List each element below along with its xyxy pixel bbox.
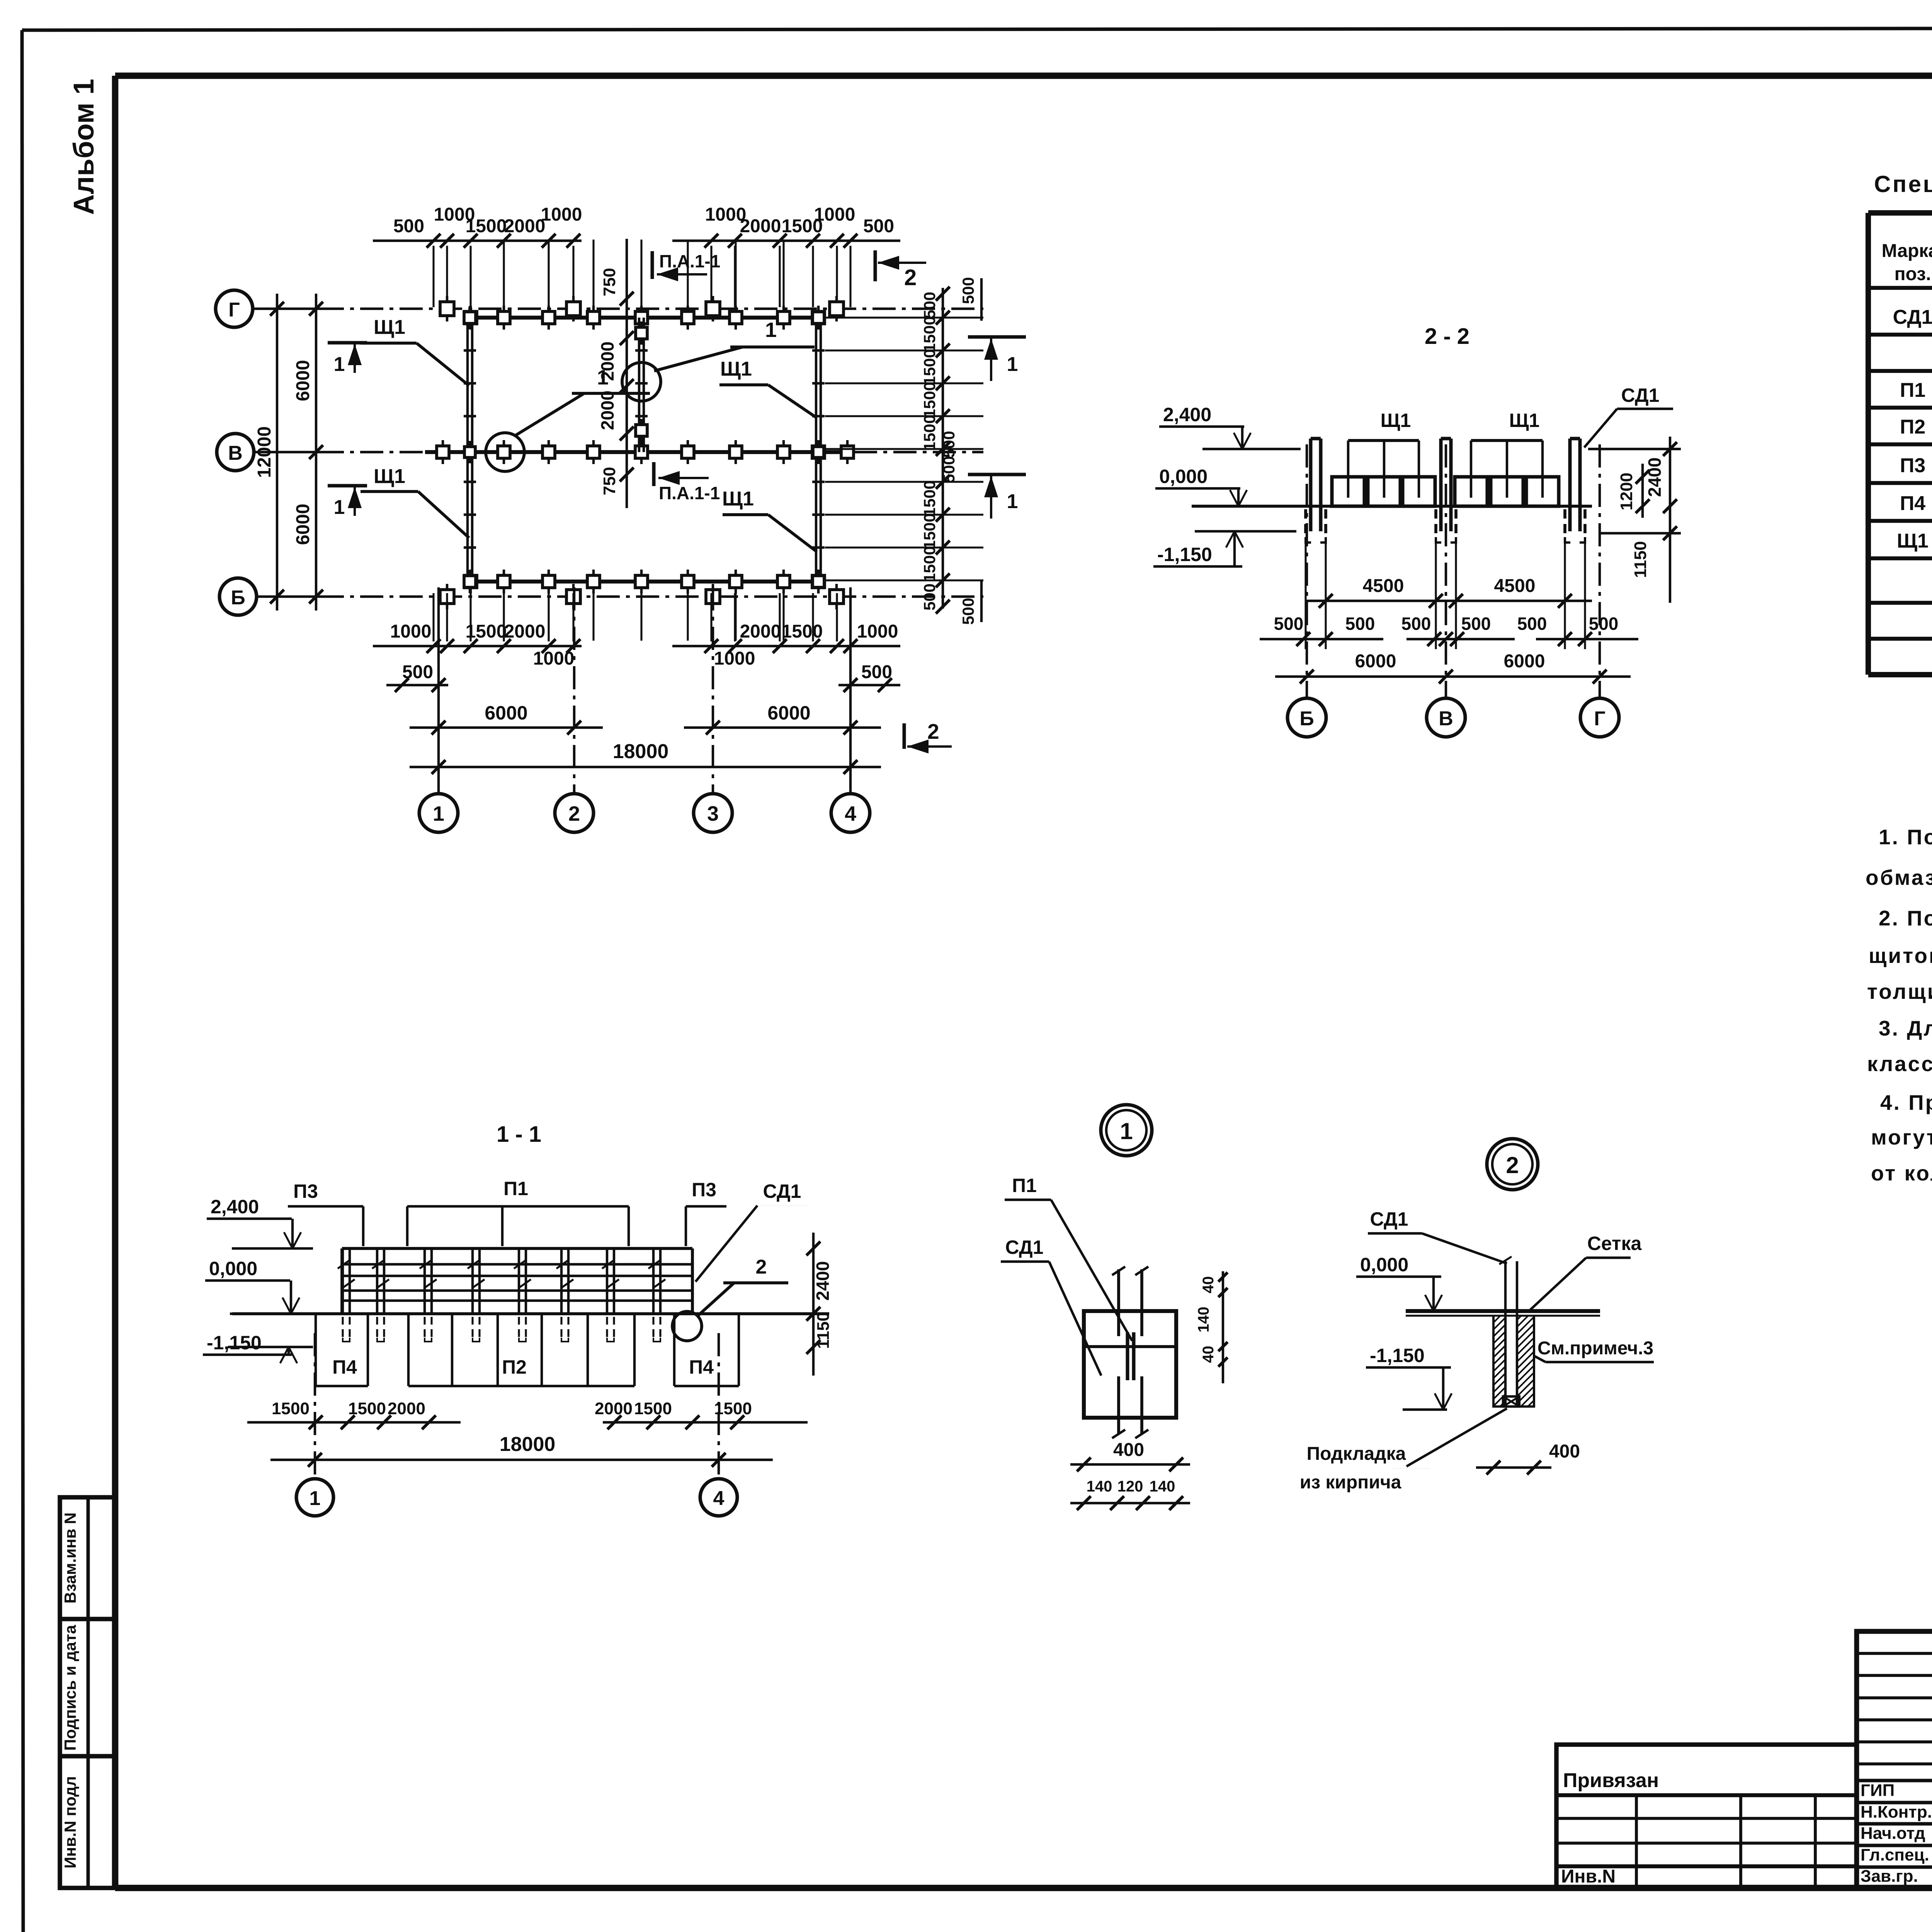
section 2-2 СД1 label: [1584, 384, 1673, 447]
svg-text:6000: 6000: [293, 360, 313, 401]
svg-text:Привязан: Привязан: [1563, 1769, 1659, 1792]
svg-text:500: 500: [1461, 614, 1491, 634]
svg-text:Зав.гр.: Зав.гр.: [1861, 1867, 1918, 1886]
plan detail circle 1 on axis В: [486, 366, 650, 471]
plan left dim line 12000: [254, 294, 284, 611]
plan witness verticals: [504, 240, 784, 641]
svg-text:толщиной 130 мкм.: толщиной 130 мкм.: [1867, 980, 1932, 1003]
plan label Щ1 top-right: [719, 358, 816, 417]
svg-text:Инв.N: Инв.N: [1561, 1866, 1616, 1887]
svg-text:1: 1: [1120, 1118, 1133, 1144]
svg-text:Щ1: Щ1: [374, 316, 405, 338]
svg-text:СД1: СД1: [763, 1180, 801, 1202]
svg-text:П3: П3: [1900, 454, 1925, 477]
plan middle wall on axis В: [425, 440, 854, 464]
svg-text:П3: П3: [293, 1180, 318, 1202]
svg-text:1150: 1150: [1631, 541, 1650, 578]
svg-text:500: 500: [1517, 614, 1547, 634]
svg-text:3. Для замоноличивания стоек: 3. Для замоноличивания стоек в скважине …: [1879, 1016, 1932, 1040]
svg-text:12000: 12000: [254, 426, 275, 478]
svg-text:Щ1: Щ1: [1381, 410, 1411, 431]
detail 2 labels: [1300, 1208, 1654, 1493]
svg-text:2,400: 2,400: [211, 1196, 259, 1218]
plan 500 dims: [386, 662, 900, 692]
svg-text:18000: 18000: [500, 1433, 556, 1456]
svg-text:0,000: 0,000: [1159, 466, 1207, 487]
svg-text:СД1: СД1: [1621, 384, 1660, 406]
svg-text:класса В7.5: класса В7.5: [1867, 1052, 1932, 1076]
svg-text:щитов окрасить перхлорвинило: щитов окрасить перхлорвиниловой эмалью Х…: [1869, 944, 1932, 968]
svg-text:4500: 4500: [1363, 576, 1404, 596]
svg-text:140: 140: [1195, 1307, 1212, 1333]
svg-text:750: 750: [600, 268, 619, 296]
svg-text:1500: 1500: [272, 1399, 310, 1418]
detail 1 post section: [1084, 1267, 1176, 1438]
svg-text:500: 500: [959, 598, 977, 625]
svg-text:500: 500: [940, 431, 958, 458]
plan section marks 1 left: [328, 343, 367, 519]
svg-text:1000: 1000: [814, 204, 855, 225]
svg-text:Подпись и дата: Подпись и дата: [61, 1625, 79, 1751]
svg-text:1000: 1000: [541, 204, 582, 225]
svg-text:1000: 1000: [533, 648, 575, 669]
svg-text:6000: 6000: [1504, 651, 1545, 672]
svg-text:поз.: поз.: [1895, 264, 1931, 284]
svg-text:СД1: СД1: [1893, 306, 1932, 328]
svg-text:1: 1: [433, 802, 444, 825]
svg-text:Гл.спец.: Гл.спец.: [1861, 1845, 1929, 1864]
svg-text:Щ1: Щ1: [720, 358, 752, 380]
svg-text:от количества и видов удоб: от количества и видов удобрений.: [1871, 1161, 1932, 1185]
svg-text:1150: 1150: [814, 1312, 833, 1349]
svg-text:Н.Контр.: Н.Контр.: [1861, 1803, 1932, 1821]
svg-text:500: 500: [959, 277, 977, 304]
svg-text:4. При привязке к конкретн: 4. При привязке к конкретным условиям пе…: [1880, 1090, 1932, 1114]
section 1-1 title: [497, 1122, 541, 1147]
section 1-1 buried panels П4 П2 П4: [316, 1314, 739, 1386]
section 1-1 bottom dim chain: [247, 1399, 808, 1429]
svg-text:В: В: [228, 442, 243, 464]
svg-text:1: 1: [765, 318, 777, 342]
plan section marks 1 right: [968, 337, 1026, 519]
plan section mark П.А.1-1 top: [652, 251, 720, 281]
plan grid circle Г: [216, 290, 253, 327]
svg-text:Сетка: Сетка: [1587, 1233, 1642, 1254]
svg-text:2000: 2000: [597, 391, 617, 430]
svg-text:Щ1: Щ1: [722, 488, 754, 510]
svg-text:40: 40: [1200, 1346, 1217, 1363]
svg-text:3: 3: [707, 802, 719, 825]
detail 2 bubble: [1487, 1139, 1538, 1190]
svg-text:1000: 1000: [714, 648, 755, 669]
plan label Щ1 top-left: [361, 316, 469, 386]
svg-text:0,000: 0,000: [1360, 1254, 1408, 1276]
svg-text:1500: 1500: [634, 1399, 672, 1418]
svg-text:500: 500: [861, 662, 892, 682]
svg-text:П4: П4: [689, 1356, 714, 1378]
specification table rows: [1893, 306, 1932, 670]
plan top dim chain: [373, 204, 900, 307]
svg-text:2000: 2000: [740, 216, 781, 236]
section 1-1 detail 2 leader: [672, 1256, 788, 1341]
plan middle partition: [635, 318, 648, 452]
svg-text:1200: 1200: [1617, 473, 1636, 510]
svg-text:могут быть выполнены передв: могут быть выполнены передвижными в зави…: [1871, 1125, 1932, 1149]
svg-text:2: 2: [1506, 1152, 1519, 1178]
svg-text:400: 400: [1549, 1441, 1580, 1462]
svg-text:Г: Г: [1594, 707, 1605, 730]
svg-text:СД1: СД1: [1005, 1236, 1044, 1258]
svg-text:0,000: 0,000: [209, 1258, 257, 1279]
svg-text:2000: 2000: [595, 1399, 633, 1418]
plan section mark 2 bottom: [904, 719, 952, 753]
section 2-2 posts СД1: [1306, 439, 1585, 543]
svg-text:Нач.отд: Нач.отд: [1861, 1824, 1925, 1843]
plan left partition Щ1: [464, 306, 476, 593]
svg-text:4: 4: [713, 1487, 724, 1510]
plan section mark 2 top: [875, 250, 926, 290]
svg-text:2400: 2400: [1645, 457, 1665, 497]
svg-text:См.примеч.3: См.примеч.3: [1537, 1338, 1653, 1359]
section 2-2 axis circles: [1287, 444, 1619, 737]
plan label Щ1 bottom-left: [361, 465, 469, 538]
plan bottom wall: [464, 570, 825, 594]
detail 1 labels: [1001, 1175, 1132, 1376]
svg-text:1. Поверхности стоек, заделанн: 1. Поверхности стоек, заделанные в грунт…: [1879, 825, 1932, 849]
svg-text:400: 400: [1113, 1440, 1144, 1460]
plan 6000 dims: [410, 702, 881, 735]
svg-text:Щ1: Щ1: [1897, 530, 1929, 552]
section 1-1 ground line: [232, 1312, 829, 1315]
section 1-1 dim 18000: [270, 1433, 773, 1467]
svg-text:Б: Б: [231, 587, 245, 609]
detail 1 bottom dims: [1070, 1440, 1190, 1510]
section 1-1 П1 label: [407, 1178, 629, 1246]
section 2-2 Щ1 labels: [1348, 410, 1543, 440]
svg-text:1500: 1500: [920, 480, 939, 516]
svg-text:Инв.N подл: Инв.N подл: [61, 1776, 79, 1869]
svg-text:Взам.инв N: Взам.инв N: [61, 1512, 79, 1604]
section 1-1 СД1 label: [696, 1180, 808, 1282]
svg-text:500: 500: [940, 456, 958, 483]
svg-text:из кирпича: из кирпича: [1300, 1472, 1401, 1493]
svg-text:500: 500: [393, 216, 424, 236]
detail 1 right dims 40/140/40: [1195, 1271, 1228, 1383]
svg-text:1 - 1: 1 - 1: [497, 1122, 541, 1147]
plan detail circle 1 on middle partition: [622, 318, 815, 401]
svg-text:-1,150: -1,150: [1370, 1345, 1425, 1366]
svg-text:1: 1: [310, 1487, 321, 1510]
specification table title: [1874, 171, 1932, 197]
svg-text:500: 500: [1401, 614, 1431, 634]
plan grid line Б: [257, 595, 983, 598]
section 2-2 dim 500 chain: [1260, 614, 1638, 646]
specification table grid: [1868, 213, 1932, 675]
svg-text:1500: 1500: [920, 316, 939, 352]
section 1-1 П4 П2 П4 labels: [332, 1356, 714, 1378]
svg-text:120: 120: [1117, 1478, 1143, 1495]
svg-text:500: 500: [920, 292, 939, 319]
detail 1 bubble: [1101, 1105, 1152, 1156]
svg-text:П.А.1-1: П.А.1-1: [659, 483, 720, 503]
svg-text:500: 500: [1274, 614, 1304, 634]
svg-text:-1,150: -1,150: [1157, 544, 1212, 565]
plan grid circle Б: [219, 578, 257, 615]
svg-text:обмазать горячим битумом за 2: обмазать горячим битумом за 2 раза.: [1866, 866, 1932, 889]
detail 2 drawing: [1399, 1257, 1645, 1410]
svg-text:Спецификация к схеме распол: Спецификация к схеме расположения элемен…: [1874, 171, 1932, 197]
section 2-2 dim 4500: [1306, 576, 1592, 608]
svg-text:1: 1: [1007, 490, 1018, 513]
plan axis column squares: [440, 296, 844, 609]
svg-text:П1: П1: [1900, 379, 1925, 401]
svg-text:П2: П2: [502, 1356, 527, 1378]
svg-text:Марка,: Марка,: [1882, 241, 1932, 261]
plan left dim line 6000x2: [293, 294, 323, 611]
svg-text:2000: 2000: [504, 216, 546, 236]
plan grid line В: [254, 451, 983, 453]
svg-text:П3: П3: [692, 1179, 716, 1201]
svg-text:2,400: 2,400: [1163, 404, 1211, 425]
title block signature table: [1857, 1631, 1932, 1888]
svg-text:2: 2: [568, 802, 580, 825]
svg-text:140: 140: [1150, 1478, 1175, 1495]
svg-text:Подкладка: Подкладка: [1307, 1444, 1406, 1464]
svg-text:-1,150: -1,150: [207, 1332, 262, 1354]
notes text: [1866, 825, 1932, 1185]
svg-text:1000: 1000: [857, 621, 898, 642]
svg-text:СД1: СД1: [1370, 1208, 1408, 1230]
svg-text:2000: 2000: [504, 621, 546, 642]
svg-text:П1: П1: [1012, 1175, 1037, 1196]
svg-text:1: 1: [334, 496, 345, 519]
album label: [68, 79, 100, 215]
section 1-1 levels: [203, 1196, 313, 1363]
svg-text:6000: 6000: [485, 702, 527, 724]
svg-text:П4: П4: [1900, 492, 1925, 515]
svg-text:4: 4: [845, 802, 856, 825]
title block attachment boxes: [1556, 1745, 1857, 1888]
plan vertical dim chain 750/2000/2000/750: [597, 239, 634, 508]
section 2-2 panels Щ1: [1332, 440, 1559, 506]
svg-text:500: 500: [1345, 614, 1375, 634]
section 2-2 dim 6000: [1275, 651, 1631, 684]
specification table header texts: [1882, 241, 1932, 286]
svg-text:500: 500: [1589, 614, 1619, 634]
plan 18000 dim: [410, 740, 881, 774]
svg-text:1500: 1500: [466, 216, 507, 236]
svg-text:П1: П1: [503, 1178, 528, 1199]
svg-text:2: 2: [904, 265, 917, 290]
svg-text:2000: 2000: [597, 342, 617, 381]
left margin stamp boxes: [60, 1497, 116, 1888]
svg-text:Альбом 1: Альбом 1: [68, 79, 100, 215]
svg-text:1500: 1500: [782, 621, 823, 642]
section 1-1 П3 label right: [686, 1179, 726, 1246]
plan top wall: [464, 306, 825, 330]
plan grid line Г: [253, 308, 983, 310]
svg-text:500: 500: [402, 662, 433, 682]
svg-text:1500: 1500: [920, 349, 939, 385]
section 1-1 fence panels: [342, 1248, 692, 1314]
plan right partition Щ1: [812, 306, 825, 593]
section 2-2 right dims: [1588, 437, 1681, 603]
svg-text:1500: 1500: [920, 382, 939, 418]
svg-text:П2: П2: [1900, 416, 1925, 438]
plan axis circles 1-4: [419, 587, 870, 832]
svg-text:40: 40: [1200, 1276, 1217, 1294]
section 1-1 axis circles: [296, 1333, 737, 1516]
section 1-1 posts: [338, 1248, 665, 1342]
section 2-2 title: [1425, 324, 1469, 349]
svg-text:1: 1: [1007, 353, 1018, 376]
svg-text:6000: 6000: [767, 702, 810, 724]
svg-text:2: 2: [927, 719, 939, 743]
svg-text:140: 140: [1087, 1478, 1112, 1495]
svg-text:2. После монтажа деревянные эл: 2. После монтажа деревянные элементы пан…: [1879, 906, 1932, 930]
svg-text:1500: 1500: [920, 415, 939, 451]
plan grid circle В: [217, 434, 254, 471]
svg-text:Щ1: Щ1: [1509, 410, 1540, 431]
plan label Щ1 bottom-right: [722, 488, 817, 552]
svg-text:Б: Б: [1299, 707, 1314, 730]
section 2-2 levels: [1153, 404, 1301, 566]
svg-text:Г: Г: [228, 299, 240, 321]
section 1-1 right dims: [806, 1233, 833, 1376]
svg-text:4500: 4500: [1494, 576, 1536, 596]
svg-text:1500: 1500: [466, 621, 507, 642]
svg-text:18000: 18000: [613, 740, 669, 763]
section 2-2 ground line: [1192, 505, 1592, 508]
plan section mark П.А.1-1 bottom: [654, 462, 720, 503]
svg-text:Щ1: Щ1: [374, 465, 405, 488]
svg-text:2400: 2400: [813, 1261, 833, 1301]
svg-text:500: 500: [863, 216, 894, 236]
svg-text:2: 2: [756, 1256, 767, 1278]
svg-text:6000: 6000: [1355, 651, 1396, 672]
section 1-1 П3 label left: [288, 1180, 363, 1246]
svg-text:ГИП: ГИП: [1861, 1781, 1895, 1800]
svg-text:1: 1: [334, 353, 345, 376]
svg-text:500: 500: [920, 583, 939, 611]
plan right witness lines and dim chain: [825, 277, 983, 625]
svg-text:750: 750: [600, 467, 619, 495]
svg-text:6000: 6000: [293, 504, 313, 545]
svg-text:П4: П4: [332, 1356, 357, 1378]
svg-text:2000: 2000: [388, 1399, 425, 1418]
section 2-2 witness lines below: [1306, 541, 1585, 649]
svg-text:2 - 2: 2 - 2: [1425, 324, 1469, 349]
svg-text:1000: 1000: [390, 621, 432, 642]
svg-text:1500: 1500: [348, 1399, 386, 1418]
svg-text:П.А.1-1: П.А.1-1: [659, 251, 720, 271]
svg-text:1500: 1500: [920, 513, 939, 549]
svg-text:В: В: [1439, 707, 1453, 730]
svg-text:2000: 2000: [740, 621, 781, 642]
plan bottom dim chain: [373, 593, 900, 669]
svg-text:1500: 1500: [920, 546, 939, 582]
